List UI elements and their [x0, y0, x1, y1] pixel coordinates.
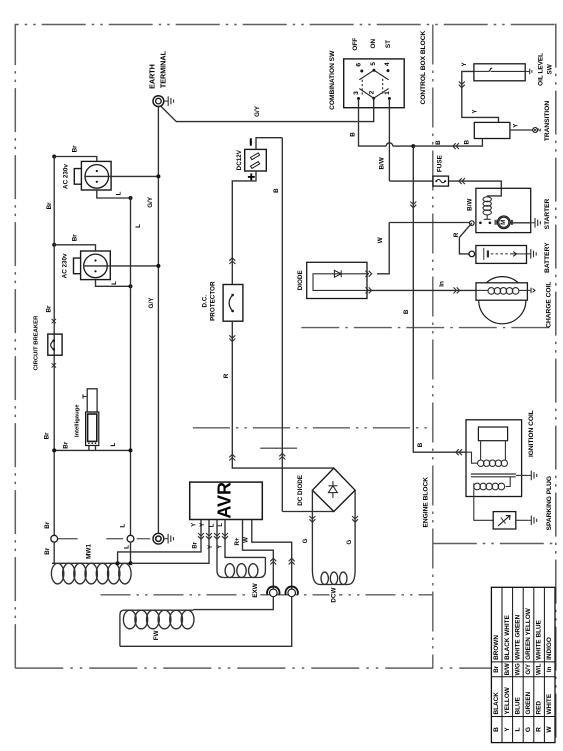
svg-text:WHITE: WHITE — [546, 693, 553, 714]
starter motor M — [498, 216, 511, 229]
svg-text:G: G — [525, 727, 532, 732]
switch dashed couplers — [361, 80, 363, 95]
wire B/W from switch terminal 1 to fuse — [388, 99, 390, 182]
ignition coil assembly — [466, 420, 522, 497]
breaker plug mark x lower — [52, 363, 56, 367]
svg-text:COMBINATION SW: COMBINATION SW — [329, 50, 336, 110]
svg-text:PROTECTOR: PROTECTOR — [210, 281, 217, 321]
intelligauge connector block — [87, 389, 97, 412]
svg-text:L: L — [120, 524, 127, 528]
voltage regulator AVR — [190, 482, 263, 519]
svg-text:AC 230v: AC 230v — [62, 253, 69, 278]
ignition core box — [478, 427, 507, 441]
svg-text:WHITE BLUE: WHITE BLUE — [536, 619, 543, 659]
svg-text:INDIGO: INDIGO — [546, 637, 553, 660]
switch terminals 3 2 1 — [357, 97, 360, 100]
svg-text:IGNITION COIL: IGNITION COIL — [528, 410, 535, 457]
svg-text:WHITE GREEN: WHITE GREEN — [514, 614, 521, 659]
generator output connector boundary (dashes between connector circles) — [57, 538, 78, 540]
svg-text:BLACK: BLACK — [493, 692, 500, 715]
wire B engine bus down — [413, 146, 466, 452]
svg-text:L: L — [209, 523, 215, 527]
wire G right from DC diode to DCW — [354, 490, 356, 570]
svg-text:G: G — [346, 540, 353, 545]
svg-text:ON: ON — [370, 39, 377, 49]
svg-text:Y: Y — [200, 523, 206, 527]
wire Br bus — [53, 157, 55, 536]
battery connector — [469, 251, 475, 257]
wire B from switch node to junction — [359, 122, 387, 147]
charge coil terminal — [527, 289, 531, 291]
svg-text:AC 230v: AC 230v — [63, 164, 70, 189]
svg-text:DIODE: DIODE — [297, 270, 304, 290]
svg-text:Y: Y — [208, 545, 214, 549]
node B junction — [411, 144, 415, 148]
svg-text:D.C.: D.C. — [201, 295, 208, 308]
earth terminal — [153, 96, 164, 107]
AC 230v outlet socket — [81, 251, 111, 280]
bullet connector R+ — [270, 589, 278, 597]
transition unit — [474, 122, 510, 138]
wire Br feed to outlet — [52, 155, 56, 159]
svg-text:B/W: B/W — [379, 157, 386, 169]
svg-text:M: M — [501, 220, 507, 225]
oil level switch terminal — [525, 70, 530, 72]
wire sparking plug to ground — [516, 519, 527, 521]
svg-text:W: W — [377, 237, 384, 243]
wire outlet to G/Y bus — [84, 265, 159, 267]
svg-text:W/L: W/L — [536, 663, 543, 675]
svg-text:B: B — [273, 188, 280, 193]
ground (starter) — [531, 222, 535, 224]
wire M to ground — [510, 222, 531, 224]
svg-text:GREEN YELLOW: GREEN YELLOW — [525, 607, 532, 660]
svg-text:L: L — [111, 281, 118, 285]
svg-text:G/Y: G/Y — [254, 105, 261, 117]
svg-text:FUSE: FUSE — [436, 154, 443, 172]
connector G/Y with ground — [153, 533, 164, 544]
svg-text:R: R — [536, 727, 543, 732]
svg-text:RED: RED — [536, 701, 543, 715]
rectifier DC DIODE — [312, 468, 355, 511]
svg-text:AVR: AVR — [215, 482, 235, 519]
wire DC12V plus to DC protector — [232, 171, 256, 285]
wire R+ connector to FW — [193, 596, 273, 610]
wire B down to DC diode — [281, 138, 283, 512]
svg-text:B: B — [464, 139, 471, 144]
control box bottom boundary line — [193, 427, 433, 429]
connector Br — [51, 535, 58, 542]
winding MW1 — [53, 542, 55, 563]
wire Br to L tie (intelligauge supply) — [54, 449, 130, 451]
svg-text:BATTERY: BATTERY — [544, 242, 551, 273]
wire switch terminal 2 to earth node — [359, 98, 374, 121]
circuit breaker CB — [48, 334, 62, 355]
ignition secondary coil — [474, 483, 481, 490]
svg-text:L: L — [110, 442, 117, 446]
ground (ignition coil) — [527, 474, 531, 476]
svg-text:FW: FW — [153, 630, 160, 640]
AC 230v outlet socket — [81, 161, 111, 190]
winding EXW — [217, 571, 224, 578]
svg-text:TERMINAL: TERMINAL — [159, 50, 168, 88]
diode assembly — [307, 262, 367, 298]
svg-text:G/Y: G/Y — [148, 297, 155, 309]
label DCW — [330, 586, 340, 605]
charge coil winding — [476, 289, 488, 291]
svg-text:Br: Br — [44, 432, 51, 440]
svg-text:Br: Br — [71, 145, 78, 153]
ground (G/Y connector) — [164, 538, 168, 540]
svg-text:L: L — [218, 523, 224, 527]
svg-text:R+: R+ — [234, 537, 241, 545]
combination switch SW — [344, 59, 405, 108]
svg-text:CHARGE COIL: CHARGE COIL — [546, 282, 553, 328]
svg-text:Br: Br — [45, 305, 52, 313]
diode symbol — [334, 270, 341, 277]
svg-text:3: 3 — [353, 91, 360, 95]
wire In from diode to charge coil — [367, 289, 476, 291]
winding DCW — [312, 570, 320, 585]
svg-text:STARTER: STARTER — [544, 198, 551, 229]
svg-text:EARTH: EARTH — [148, 64, 157, 89]
svg-text:SW: SW — [546, 63, 553, 74]
svg-text:Br: Br — [71, 234, 78, 242]
charge coil flywheel — [479, 277, 526, 324]
wire MW1 tap to AVR pin Y1 — [116, 561, 120, 565]
ground (sparking plug) — [527, 519, 531, 521]
svg-text:DCW: DCW — [331, 588, 338, 603]
svg-text:W/G: W/G — [514, 663, 521, 676]
svg-text:In: In — [546, 666, 553, 672]
svg-text:L: L — [123, 545, 130, 549]
control box / engine vertical boundary line — [432, 25, 434, 669]
starter solenoid coil — [486, 196, 488, 197]
svg-text:BLUE: BLUE — [514, 696, 521, 714]
engine block top boundary line — [301, 327, 556, 329]
battery cells — [483, 248, 485, 260]
breaker plug mark x upper — [52, 319, 56, 323]
switch terminals 6 5 4 — [360, 70, 363, 73]
ignition core lines — [471, 473, 516, 475]
battery — [476, 246, 527, 264]
svg-text:W: W — [546, 726, 553, 733]
wire R battery to solenoid arm — [459, 223, 471, 254]
svg-text:Y: Y — [192, 523, 198, 527]
label EXW — [251, 582, 260, 601]
wire battery to ground — [517, 253, 527, 255]
svg-text:G/Y: G/Y — [525, 663, 532, 675]
svg-text:B: B — [435, 140, 442, 145]
bolt terminal — [533, 128, 538, 133]
wire L from outlet — [96, 280, 131, 287]
svg-text:Br: Br — [44, 521, 51, 529]
wire AVR pin L3 to EXW — [216, 520, 218, 571]
switch contact arms — [359, 70, 374, 80]
wire G/Y bus down to output connector — [157, 107, 159, 534]
bullet connector W — [288, 589, 296, 597]
svg-text:Br: Br — [44, 547, 51, 555]
wire B to DC diode bottom — [282, 511, 334, 513]
wire L bus — [130, 197, 132, 536]
rotor connector boundary line — [101, 594, 434, 596]
svg-text:4: 4 — [384, 62, 391, 66]
ignition primary leads — [480, 441, 482, 460]
wire colour legend table — [491, 587, 555, 742]
svg-text:W: W — [243, 537, 250, 543]
svg-text:ENGINE BLOCK: ENGINE BLOCK — [423, 477, 430, 528]
svg-text:L: L — [116, 191, 123, 195]
svg-text:DC12V: DC12V — [236, 149, 243, 170]
svg-text:R: R — [223, 373, 230, 378]
svg-text:R: R — [453, 232, 460, 237]
svg-text:Y: Y — [504, 727, 511, 732]
AVR pin connector arrows — [198, 533, 204, 536]
wire G/Y from earth terminal to combination switch (node B) — [160, 106, 357, 122]
svg-text:ST: ST — [385, 40, 392, 48]
wire L from outlet — [97, 190, 131, 198]
wire W connector to FW return — [120, 596, 292, 646]
svg-text:B: B — [417, 442, 424, 447]
svg-text:OIL LEVEL: OIL LEVEL — [538, 53, 545, 86]
wire outlet to G/Y bus — [85, 175, 158, 177]
wire G left from DC diode to DCW — [311, 490, 313, 570]
svg-text:G/Y: G/Y — [147, 196, 154, 208]
svg-text:In: In — [439, 281, 446, 287]
label plus — [250, 174, 252, 181]
ground (earth terminal) — [164, 100, 168, 102]
svg-text:MW1: MW1 — [86, 544, 93, 559]
intelligauge meter — [86, 412, 99, 446]
starter solenoid pivot — [470, 221, 475, 226]
svg-text:GREEN: GREEN — [525, 691, 532, 714]
svg-text:SPARKING PLUG: SPARKING PLUG — [546, 476, 553, 530]
wire MW1 end to AVR pin Y2 — [129, 561, 133, 565]
svg-text:G: G — [302, 538, 309, 543]
label minus — [250, 138, 252, 145]
svg-text:Br: Br — [46, 202, 53, 210]
svg-text:L: L — [135, 224, 142, 228]
svg-text:Intelligauge: Intelligauge — [75, 404, 81, 437]
svg-text:B: B — [403, 309, 410, 314]
wire AVR pin L4 to EXW right end — [225, 520, 265, 558]
wire through fuse to starter solenoid — [389, 180, 433, 182]
ground (battery) — [527, 253, 531, 255]
wire AVR R+ to rotor connector — [243, 520, 274, 590]
svg-text:B: B — [493, 727, 500, 732]
svg-text:BROWN: BROWN — [493, 635, 500, 660]
svg-text:CIRCUIT BREAKER: CIRCUIT BREAKER — [34, 315, 40, 370]
wire Y transition to bolt terminal — [510, 129, 533, 131]
svg-text:6: 6 — [355, 63, 362, 67]
svg-text:CONTROL BOX BLOCK: CONTROL BOX BLOCK — [420, 30, 427, 104]
DC 12V socket — [245, 149, 267, 171]
oil level switch — [474, 64, 525, 81]
wire B to transition — [413, 139, 482, 147]
svg-text:L: L — [514, 727, 521, 731]
wire Br feed to outlet — [52, 243, 56, 247]
wire W riser — [377, 223, 389, 274]
svg-text:EXW: EXW — [252, 583, 259, 597]
svg-text:BLACK WHITE: BLACK WHITE — [504, 614, 511, 659]
svg-text:B/W: B/W — [466, 199, 473, 211]
engine block bottom boundary line — [433, 543, 553, 545]
svg-text:TRANSITION: TRANSITION — [544, 101, 551, 142]
starter contacts — [479, 222, 482, 225]
wire intelligauge pins — [88, 446, 90, 451]
sparking plug — [493, 512, 516, 529]
svg-text:2: 2 — [368, 90, 375, 94]
wire Y oil level to transition — [462, 71, 499, 122]
wire DC12V minus to B — [256, 138, 282, 150]
svg-text:B/W: B/W — [504, 663, 511, 675]
wire W feed to starter contact — [389, 222, 469, 224]
svg-text:Br: Br — [193, 541, 199, 548]
ignition primary coil — [466, 452, 478, 463]
svg-text:YELLOW: YELLOW — [504, 686, 511, 714]
svg-text:Br: Br — [63, 441, 70, 449]
short crossing tick line — [260, 447, 297, 449]
svg-text:Br: Br — [493, 665, 500, 672]
fuse F — [433, 176, 449, 186]
wire switch terminal 3 to earth node — [358, 99, 360, 122]
diode internal wire — [313, 274, 367, 291]
winding FW (rotor field) — [123, 610, 136, 629]
connector L — [127, 535, 134, 542]
svg-text:5: 5 — [370, 62, 377, 66]
wire R from protector to DC diode — [232, 321, 333, 468]
DC protector — [223, 285, 243, 322]
intelligauge pin — [83, 396, 87, 398]
svg-text:Y: Y — [217, 545, 223, 549]
charge coil housing — [476, 283, 527, 300]
wire secondary to sparking plug — [474, 490, 493, 521]
wire AVR W to rotor connector — [252, 520, 292, 590]
svg-text:DC DIODE: DC DIODE — [297, 475, 304, 506]
svg-text:OFF: OFF — [352, 38, 359, 51]
svg-text:B: B — [349, 132, 356, 137]
wire ignition to ground — [516, 474, 527, 476]
starter assembly — [476, 188, 531, 232]
